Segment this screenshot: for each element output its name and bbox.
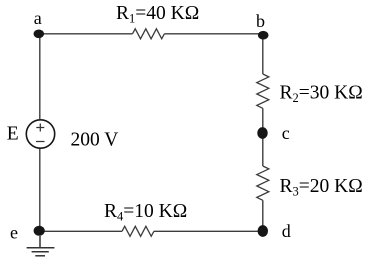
wire e up to voltage source	[39, 148, 41, 231]
node e	[34, 226, 45, 236]
node d	[258, 225, 268, 237]
wire R4 to e (bottom left)	[39, 230, 122, 232]
node c	[257, 127, 267, 139]
resistor R2	[257, 74, 269, 108]
resistor R4	[122, 226, 154, 236]
svg-text:200 V: 200 V	[71, 129, 119, 150]
node b	[258, 31, 269, 40]
svg-text:R1=40 KΩ: R1=40 KΩ	[116, 3, 199, 26]
wire d to R4 (bottom right)	[154, 230, 263, 232]
svg-text:e: e	[10, 222, 18, 242]
svg-text:b: b	[256, 11, 265, 31]
svg-text:E: E	[7, 124, 19, 145]
svg-text:d: d	[282, 221, 291, 241]
svg-text:c: c	[282, 123, 290, 143]
wire c to R3	[262, 133, 264, 166]
wire R2 to c	[262, 108, 264, 133]
ground	[27, 236, 55, 256]
resistor R1	[133, 29, 165, 39]
wire R1 to b (top right)	[164, 33, 262, 35]
voltage source E (circle)	[26, 120, 54, 148]
svg-text:R4=10 KΩ: R4=10 KΩ	[104, 201, 187, 224]
plus sign inside source	[36, 124, 44, 132]
wire R3 to d	[262, 200, 264, 231]
node a	[34, 30, 45, 39]
svg-text:R3=20 KΩ: R3=20 KΩ	[280, 176, 363, 199]
svg-text:R2=30 KΩ: R2=30 KΩ	[280, 82, 363, 105]
wire b to R2	[262, 34, 264, 74]
resistor R3	[257, 166, 269, 200]
minus sign inside source	[36, 141, 45, 143]
svg-text:a: a	[34, 8, 42, 28]
wire a to R1 (top left)	[40, 33, 133, 35]
wire voltage source up to a	[39, 34, 41, 120]
